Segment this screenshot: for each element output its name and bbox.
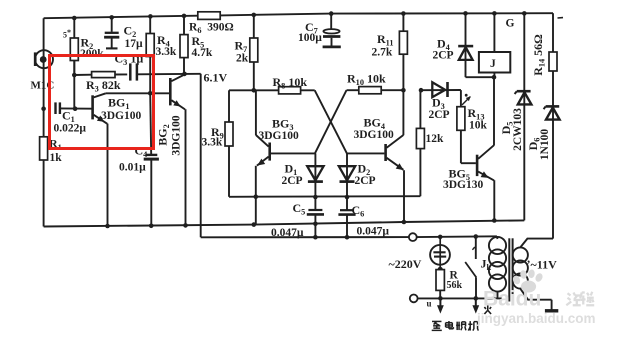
svg-text:3DG100: 3DG100: [259, 130, 300, 142]
svg-text:2CP: 2CP: [282, 175, 303, 187]
svg-text:56k: 56k: [447, 280, 463, 291]
svg-text:J: J: [490, 58, 496, 70]
svg-text:0.01µ: 0.01µ: [119, 161, 146, 173]
svg-text:2CP: 2CP: [355, 175, 376, 187]
svg-text:1k: 1k: [50, 152, 63, 164]
svg-text:2CP: 2CP: [433, 50, 454, 62]
svg-text:u: u: [427, 299, 432, 309]
svg-text:2CW103: 2CW103: [512, 108, 524, 151]
svg-text:4.7k: 4.7k: [192, 47, 213, 59]
svg-text:100µ: 100µ: [298, 32, 322, 44]
svg-text:6.1V: 6.1V: [204, 71, 228, 85]
svg-text:10k: 10k: [469, 120, 488, 132]
svg-text:2CP: 2CP: [429, 109, 450, 121]
svg-text:R6 390Ω: R6 390Ω: [189, 22, 234, 36]
svg-text:3DG100: 3DG100: [171, 115, 183, 156]
svg-text:R8 10k: R8 10k: [273, 75, 308, 91]
svg-text:Baidu: Baidu: [483, 288, 541, 311]
svg-text:3.3k: 3.3k: [202, 136, 223, 148]
svg-text:12k: 12k: [426, 133, 445, 145]
svg-text:1N100: 1N100: [539, 129, 551, 161]
svg-text:jingyan.baidu.com: jingyan.baidu.com: [476, 311, 596, 326]
svg-text:0.047µ: 0.047µ: [271, 227, 304, 239]
svg-text:2k: 2k: [236, 53, 249, 65]
svg-text:3DG100: 3DG100: [354, 129, 395, 141]
svg-text:ʼ~11V: ʼ~11V: [527, 258, 558, 272]
svg-text:2.7k: 2.7k: [372, 47, 393, 59]
svg-text:3DG130: 3DG130: [443, 179, 484, 191]
svg-text:~220V: ~220V: [389, 257, 422, 271]
svg-text:R10 10k: R10 10k: [347, 72, 386, 88]
svg-text:G: G: [506, 18, 515, 30]
svg-text:R14 56Ω: R14 56Ω: [531, 34, 547, 76]
svg-text:3.3k: 3.3k: [156, 46, 177, 58]
svg-text:0.047µ: 0.047µ: [357, 226, 390, 238]
svg-text:17µ: 17µ: [125, 38, 144, 50]
